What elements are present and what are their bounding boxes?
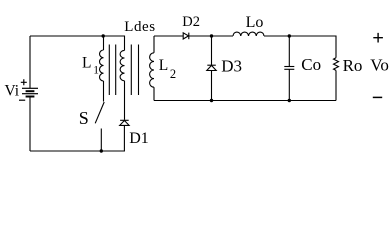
- wire left rail (Vi+ down to battery): [29, 36, 31, 88]
- wire L2 top corner: [153, 36, 155, 53]
- wire Ro bottom: [335, 70, 337, 100]
- wire L2 bottom corner to secondary bottom rail: [153, 87, 155, 100]
- capacitor Co: [284, 67, 294, 70]
- svg-text:Vo: Vo: [370, 55, 389, 74]
- inductor L2 secondary winding: [150, 53, 154, 87]
- battery Vi: [22, 88, 38, 96]
- inductor L1 primary winding: [100, 50, 104, 81]
- node junction dot D2-D3-Lo: [210, 34, 213, 37]
- svg-text:D3: D3: [221, 56, 242, 75]
- label L1: [82, 55, 99, 77]
- transformer core lines pair 1: [109, 45, 115, 96]
- svg-text:Ldes: Ldes: [124, 19, 156, 35]
- svg-text:Lo: Lo: [246, 14, 264, 31]
- resistor Ro: [334, 58, 339, 71]
- label L2: [159, 57, 176, 81]
- wire D2 cathode to Lo: [189, 35, 233, 37]
- wire left rail (battery to bottom rail): [29, 97, 31, 152]
- svg-text:D2: D2: [182, 14, 200, 30]
- switch S blade: [95, 102, 104, 123]
- label battery plus: [21, 79, 27, 85]
- svg-text:L: L: [82, 55, 91, 72]
- wire Co branch bottom: [288, 70, 290, 101]
- label battery minus: [19, 99, 25, 101]
- svg-text:Ro: Ro: [343, 56, 363, 75]
- node junction dot D3 bottom: [210, 99, 213, 102]
- diode D2: [183, 33, 189, 40]
- node junction dot Lo-Co top: [288, 34, 291, 37]
- label output plus: [373, 33, 383, 43]
- node junction dot Co bottom: [288, 99, 291, 102]
- wire Ldes bottom to D1: [124, 81, 126, 120]
- wire secondary bottom rail: [154, 100, 336, 102]
- svg-text:L: L: [159, 57, 168, 74]
- diode D3: [207, 65, 216, 70]
- svg-text:Vi: Vi: [5, 83, 20, 100]
- wire bottom rail primary (to D1 anode): [30, 125, 124, 151]
- wire L1 top (node A down to coil): [103, 36, 105, 50]
- svg-text:Co: Co: [301, 55, 321, 74]
- label output minus: [373, 96, 382, 98]
- node junction dot switch to bottom rail: [100, 149, 103, 152]
- svg-text:S: S: [79, 108, 89, 128]
- inductor Lo output filter: [233, 32, 264, 36]
- wire L1 bottom to switch: [103, 81, 105, 102]
- svg-text:1: 1: [93, 65, 99, 77]
- wire D3 branch bottom: [211, 71, 213, 101]
- wire D3 branch top: [211, 36, 213, 65]
- wire secondary top (L2 to D2 anode): [154, 35, 183, 37]
- wire Co branch top: [288, 36, 290, 66]
- svg-text:D1: D1: [129, 130, 149, 147]
- wire switch bottom terminal: [100, 129, 102, 152]
- node A junction dot (transformer primary top): [102, 34, 105, 37]
- wire Lo to Ro top corner: [264, 36, 336, 58]
- inductor Ldes demagnetizing winding: [120, 50, 124, 80]
- wire top rail primary (Vi+ to transformer corner): [30, 36, 125, 50]
- svg-text:2: 2: [170, 67, 176, 81]
- diode D1: [120, 120, 129, 125]
- transformer core lines pair 2: [131, 45, 138, 96]
